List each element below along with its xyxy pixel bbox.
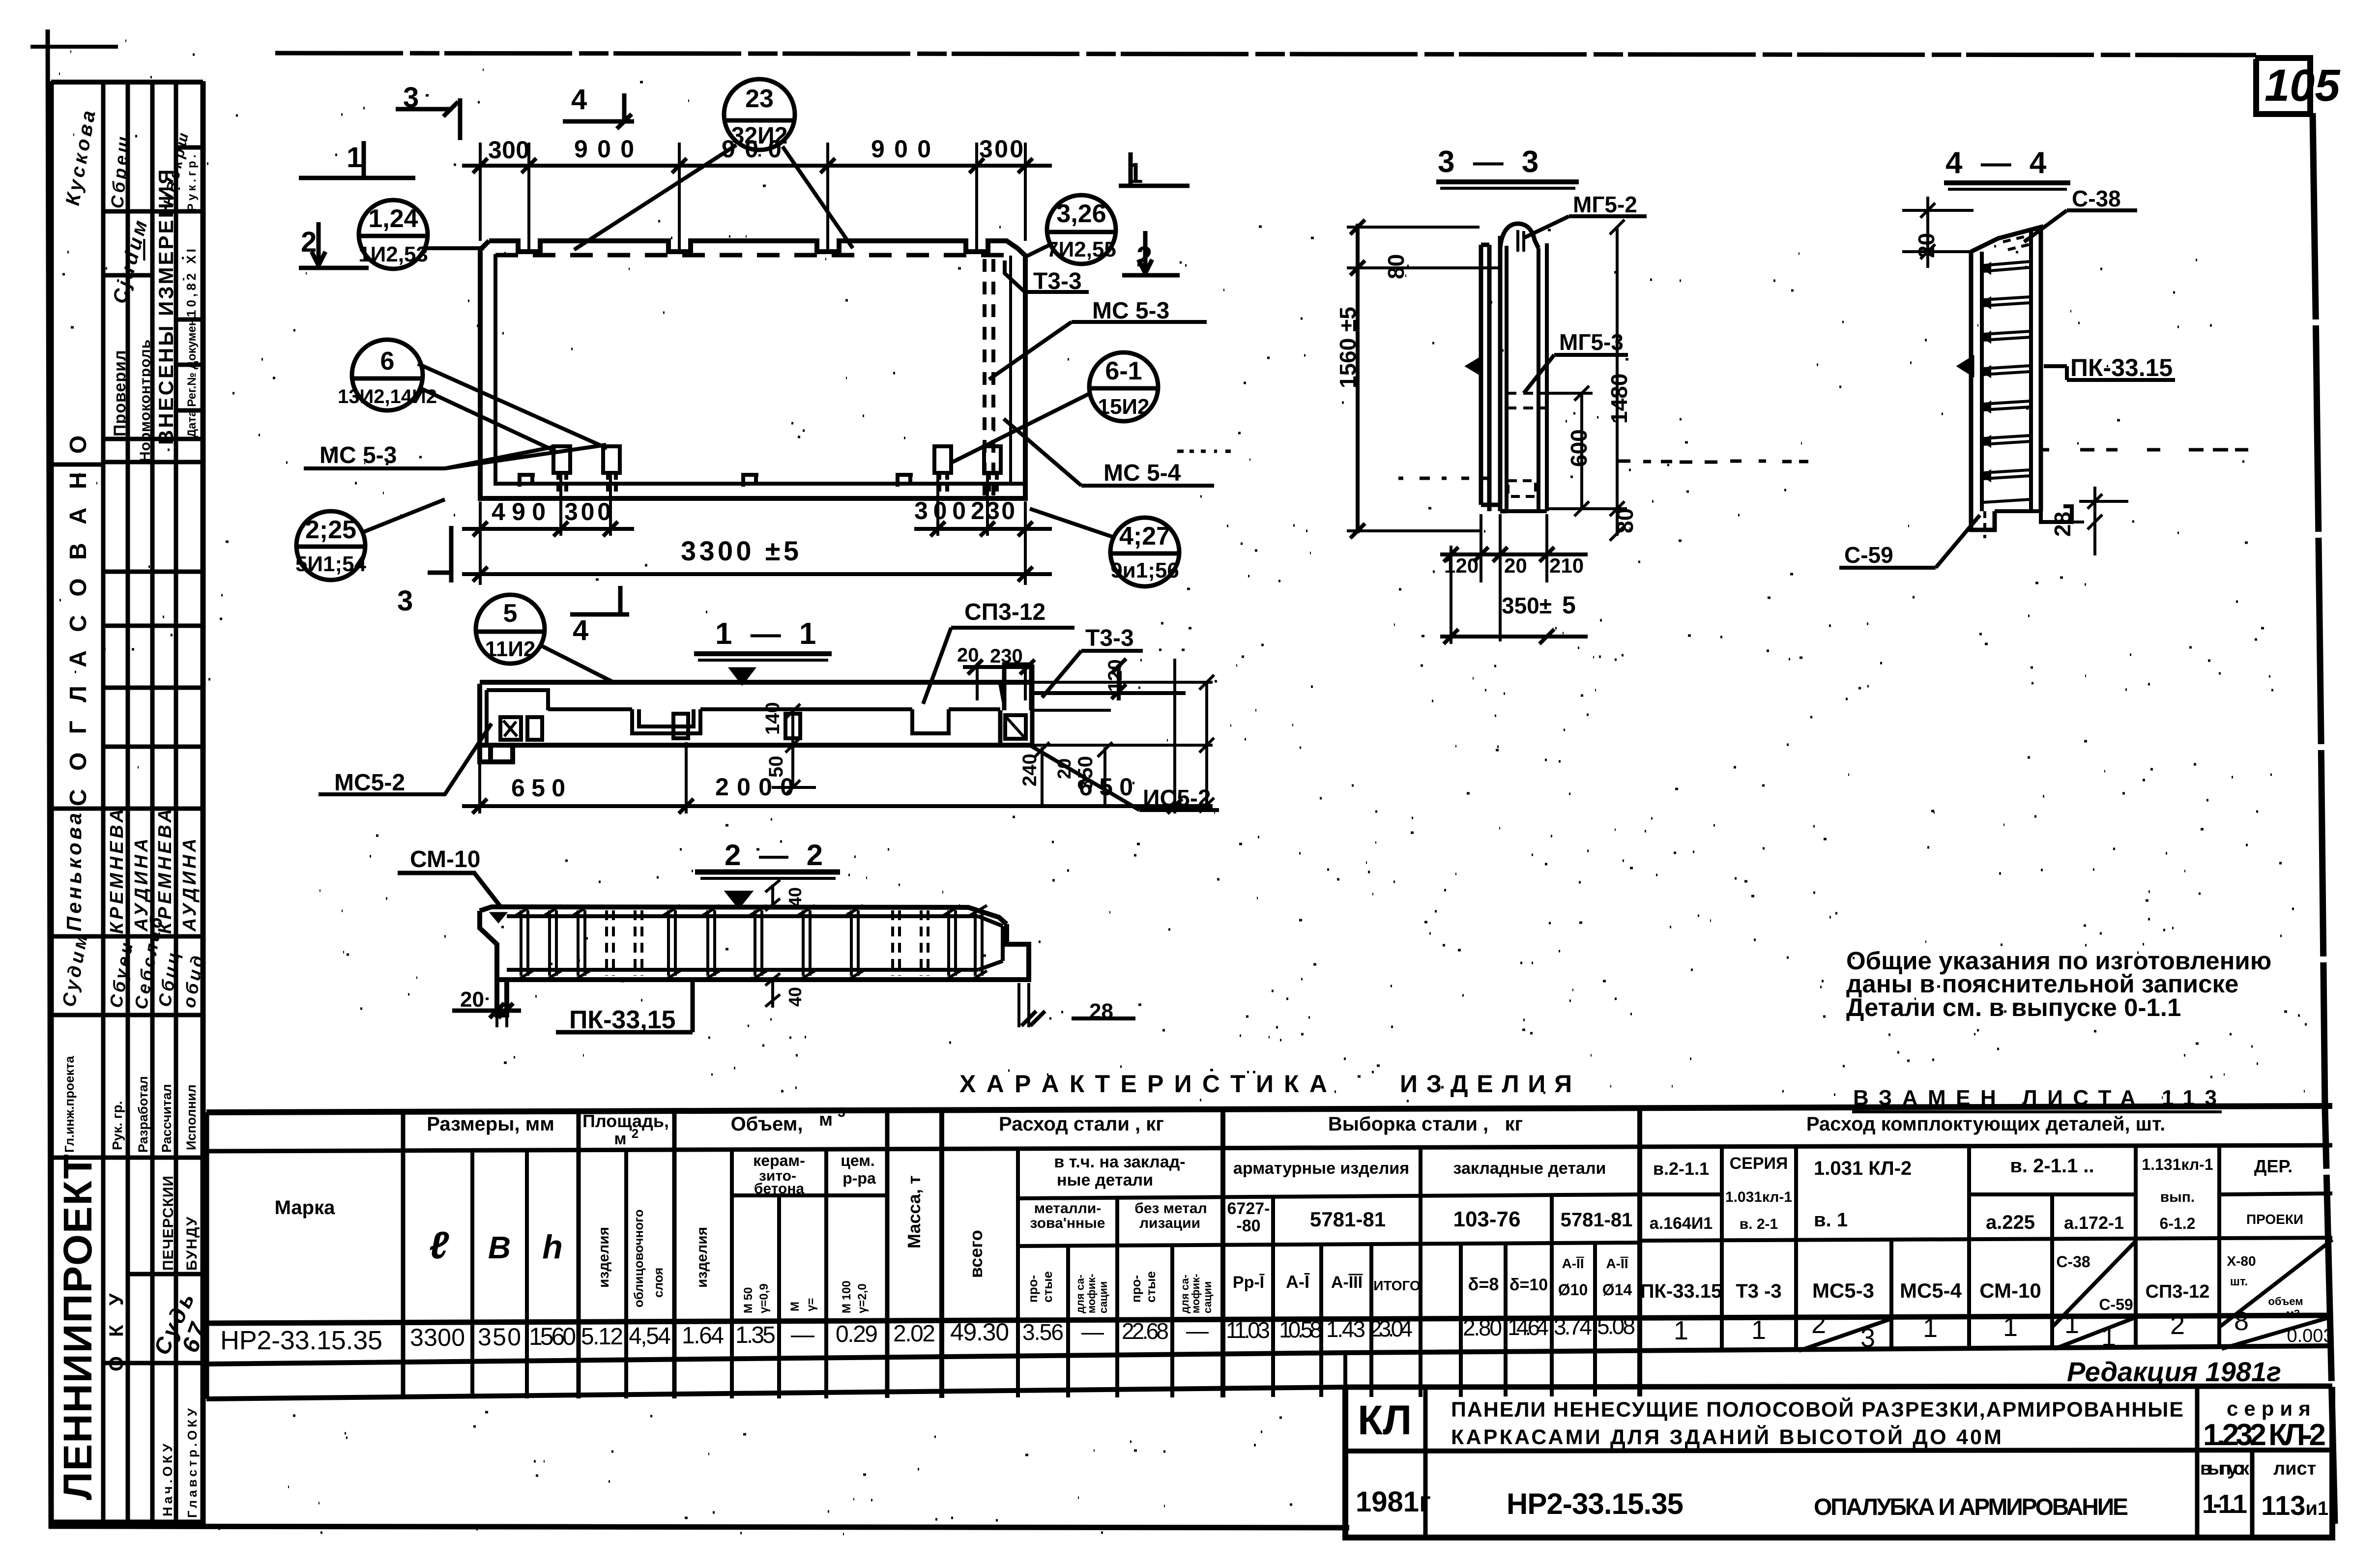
svg-text:5.12: 5.12 — [581, 1324, 623, 1350]
svg-text:—: — — [1186, 1318, 1209, 1343]
svg-text:ИТОГО: ИТОГО — [1373, 1278, 1421, 1293]
svg-text:ные детали: ные детали — [1057, 1171, 1153, 1190]
svg-text:4: 4 — [571, 84, 587, 116]
svg-text:про-: про- — [1025, 1275, 1040, 1303]
svg-text:для са-: для са- — [1074, 1275, 1086, 1313]
svg-text:м: м — [614, 1130, 626, 1148]
svg-text:изделия: изделия — [596, 1227, 612, 1288]
svg-text:2.80: 2.80 — [1463, 1315, 1502, 1340]
svg-text:40: 40 — [785, 987, 805, 1007]
svg-text:10.58: 10.58 — [1279, 1317, 1322, 1342]
svg-text:δ=8: δ=8 — [1468, 1274, 1499, 1294]
svg-text:3,26: 3,26 — [1056, 200, 1106, 228]
svg-text:Гл.инж.проекта: Гл.инж.проекта — [62, 1056, 77, 1153]
svg-text:5.08: 5.08 — [1597, 1313, 1635, 1339]
svg-text:Разработал: Разработал — [136, 1076, 150, 1153]
svg-text:Исполнил: Исполнил — [184, 1084, 199, 1150]
svg-text:6-1: 6-1 — [1105, 357, 1142, 385]
svg-text:ОПАЛУБКА И АРМИРОВАНИЕ: ОПАЛУБКА И АРМИРОВАНИЕ — [1814, 1494, 2128, 1520]
svg-text:350: 350 — [478, 1323, 521, 1351]
svg-text:40: 40 — [785, 887, 805, 907]
svg-text:210: 210 — [1549, 554, 1584, 577]
svg-text:13И2,14И2: 13И2,14И2 — [338, 386, 437, 407]
svg-text:стые: стые — [1040, 1271, 1055, 1303]
svg-text:10,82 XI: 10,82 XI — [184, 246, 199, 317]
svg-text:м3: м3 — [2286, 1307, 2300, 1320]
svg-text:м: м — [819, 1109, 833, 1130]
svg-text:А-ĪĪ: А-ĪĪ — [1562, 1256, 1584, 1271]
svg-text:МГ5-3: МГ5-3 — [1559, 329, 1624, 355]
svg-text:2: 2 — [1811, 1309, 1826, 1339]
svg-text:80: 80 — [1612, 508, 1638, 533]
svg-text:Ø10: Ø10 — [1558, 1281, 1588, 1299]
svg-text:изделия: изделия — [694, 1227, 710, 1288]
svg-text:в т.ч. на заклад-: в т.ч. на заклад- — [1054, 1153, 1185, 1171]
svg-text:2.02: 2.02 — [893, 1321, 935, 1347]
svg-text:А-ĪĪ: А-ĪĪ — [1606, 1256, 1628, 1271]
svg-text:С-59: С-59 — [2099, 1296, 2133, 1313]
svg-text:49.30: 49.30 — [950, 1318, 1009, 1346]
svg-text:в. 2-1.1 ..: в. 2-1.1 .. — [2010, 1155, 2094, 1177]
svg-text:М 50: М 50 — [742, 1287, 755, 1313]
svg-text:всего: всего — [966, 1230, 986, 1278]
svg-text:НР2-33.15.35: НР2-33.15.35 — [1507, 1487, 1683, 1520]
svg-text:ПК-33,15: ПК-33,15 — [569, 1006, 676, 1034]
svg-text:р-ра: р-ра — [842, 1169, 876, 1187]
svg-text:МС5-4: МС5-4 — [1900, 1279, 1962, 1302]
svg-text:Т3 -3: Т3 -3 — [1736, 1280, 1781, 1302]
svg-text:Т3-3: Т3-3 — [1085, 625, 1134, 651]
svg-text:3300: 3300 — [410, 1324, 465, 1351]
svg-text:ПРОЕКИ: ПРОЕКИ — [2246, 1212, 2303, 1227]
svg-text:сации: сации — [1097, 1281, 1109, 1313]
svg-text:керам-: керам- — [753, 1152, 805, 1169]
svg-text:5781-81: 5781-81 — [1561, 1209, 1633, 1231]
svg-text:ЛЕННИИПРОЕКТ: ЛЕННИИПРОЕКТ — [56, 1153, 100, 1500]
svg-text:300: 300 — [488, 136, 529, 164]
svg-text:50: 50 — [765, 756, 787, 778]
svg-text:КРЕМНЕВА: КРЕМНЕВА — [107, 806, 127, 934]
svg-text:Детали см. в выпуске 0-1.1: Детали см. в выпуске 0-1.1 — [1846, 993, 2181, 1021]
svg-text:900: 900 — [574, 135, 634, 163]
svg-text:Размеры, мм: Размеры, мм — [427, 1113, 554, 1135]
svg-text:Дата Рег.№ Докумен.: Дата Рег.№ Докумен. — [185, 316, 199, 437]
svg-text:28: 28 — [2050, 512, 2075, 537]
svg-text:ПК-33.15: ПК-33.15 — [2070, 354, 2173, 381]
svg-text:300: 300 — [564, 498, 611, 525]
svg-text:1.43: 1.43 — [1326, 1316, 1365, 1342]
svg-text:МГ5-2: МГ5-2 — [1573, 192, 1637, 217]
svg-text:сации: сации — [1201, 1281, 1214, 1313]
svg-text:11И2: 11И2 — [485, 637, 536, 661]
svg-text:ℓ: ℓ — [429, 1223, 449, 1267]
svg-text:1: 1 — [1751, 1315, 1766, 1345]
svg-text:а.225: а.225 — [1986, 1212, 2035, 1233]
svg-text:О К У: О К У — [106, 1286, 127, 1371]
svg-text:Нормоконтроль: Нормоконтроль — [137, 339, 153, 462]
svg-text:1: 1 — [2003, 1312, 2018, 1342]
svg-text:9и1;56: 9и1;56 — [1110, 558, 1179, 582]
svg-text:1,24: 1,24 — [368, 204, 418, 233]
svg-text:3: 3 — [838, 1104, 845, 1120]
svg-text:ПАНЕЛИ НЕНЕСУЩИЕ ПОЛОСОВОЙ: ПАНЕЛИ НЕНЕСУЩИЕ ПОЛОСОВОЙ РАЗРЕЗКИ,АРМИ… — [1451, 1397, 2183, 1422]
svg-text:0.29: 0.29 — [836, 1321, 878, 1347]
svg-text:А-ĪĪĪ: А-ĪĪĪ — [1331, 1273, 1363, 1292]
svg-text:140: 140 — [762, 702, 784, 735]
svg-text:в. 1: в. 1 — [1814, 1209, 1848, 1231]
svg-text:без метал: без метал — [1134, 1200, 1207, 1217]
svg-text:6: 6 — [380, 347, 395, 376]
svg-text:БУНДУ: БУНДУ — [184, 1216, 200, 1271]
svg-text:Расход стали , кг: Расход стали , кг — [999, 1113, 1164, 1135]
svg-text:1.131кл-1: 1.131кл-1 — [2142, 1156, 2213, 1173]
svg-text:Объем,: Объем, — [731, 1113, 803, 1135]
svg-text:бетона: бетона — [754, 1181, 805, 1197]
svg-text:32И2: 32И2 — [731, 123, 788, 149]
svg-text:1-1.1: 1-1.1 — [2202, 1489, 2247, 1519]
svg-text:2 — 2: 2 — 2 — [725, 839, 828, 871]
svg-text:НР2-33.15.35: НР2-33.15.35 — [220, 1326, 382, 1355]
svg-text:1: 1 — [1923, 1313, 1938, 1343]
svg-text:в.2-1.1: в.2-1.1 — [1653, 1159, 1709, 1179]
svg-text:1.031 КЛ-2: 1.031 КЛ-2 — [1814, 1158, 1912, 1179]
svg-text:в. 2-1: в. 2-1 — [1740, 1216, 1778, 1232]
svg-text:1: 1 — [347, 142, 362, 174]
svg-text:7И2,55: 7И2,55 — [1046, 237, 1116, 261]
svg-text:арматурные изделия: арматурные изделия — [1233, 1159, 1409, 1178]
svg-text:—: — — [131, 236, 155, 261]
svg-text:СП3-12: СП3-12 — [2146, 1281, 2210, 1302]
svg-text:1.031кл-1: 1.031кл-1 — [1725, 1189, 1792, 1205]
svg-text:В: В — [488, 1230, 511, 1265]
svg-text:С-59: С-59 — [1844, 542, 1893, 568]
svg-text:ДЕР.: ДЕР. — [2254, 1156, 2293, 1176]
svg-text:Ø14: Ø14 — [1602, 1281, 1632, 1299]
svg-text:шт.: шт. — [2230, 1275, 2248, 1288]
svg-text:—: — — [791, 1322, 814, 1348]
svg-text:2: 2 — [2170, 1310, 2185, 1340]
svg-text:слоя: слоя — [651, 1268, 666, 1298]
svg-text:650: 650 — [511, 774, 565, 802]
svg-text:28: 28 — [1089, 999, 1113, 1023]
svg-text:про-: про- — [1129, 1275, 1143, 1303]
svg-text:Расход комплоктующих деталей,: Расход комплоктующих деталей, шт. — [1806, 1113, 2165, 1135]
svg-text:240: 240 — [1019, 754, 1041, 786]
svg-text:Рук.гр.: Рук.гр. — [185, 152, 199, 211]
svg-text:80: 80 — [1383, 254, 1409, 279]
svg-text:3: 3 — [397, 585, 413, 617]
svg-text:стые: стые — [1143, 1271, 1158, 1303]
svg-text:а.164И1: а.164И1 — [1650, 1214, 1712, 1233]
svg-text:23: 23 — [745, 85, 774, 113]
svg-text:4 — 4: 4 — 4 — [1945, 146, 2051, 180]
svg-text:1.232 КЛ-2: 1.232 КЛ-2 — [2203, 1418, 2326, 1452]
svg-text:МС5-3: МС5-3 — [1812, 1279, 1874, 1302]
svg-text:М: М — [788, 1302, 802, 1311]
svg-text:Площадь,: Площадь, — [582, 1111, 669, 1131]
svg-text:СМ-10: СМ-10 — [1979, 1279, 2041, 1302]
svg-text:СП3-12: СП3-12 — [964, 599, 1045, 625]
svg-text:1 — 1: 1 — 1 — [715, 617, 821, 651]
svg-text:3.56: 3.56 — [1022, 1319, 1064, 1345]
svg-text:120: 120 — [1444, 554, 1479, 577]
svg-text:металли-: металли- — [1034, 1200, 1101, 1217]
svg-text:а.172-1: а.172-1 — [2064, 1213, 2124, 1233]
svg-text:С-38: С-38 — [2056, 1253, 2090, 1271]
svg-text:лизации: лизации — [1139, 1215, 1200, 1231]
svg-text:1560: 1560 — [529, 1323, 576, 1350]
svg-text:23.04: 23.04 — [1369, 1316, 1413, 1341]
svg-text:h: h — [542, 1228, 563, 1266]
svg-text:МС 5-3: МС 5-3 — [319, 442, 397, 468]
svg-text:Выборка стали , кг: Выборка стали , кг — [1328, 1113, 1523, 1135]
svg-text:мофик-: мофик- — [1085, 1274, 1098, 1313]
svg-text:5И1;54: 5И1;54 — [295, 552, 367, 576]
svg-text:105: 105 — [2264, 60, 2341, 111]
svg-text:1981г: 1981г — [1356, 1486, 1431, 1518]
svg-text:γ=0,9: γ=0,9 — [757, 1283, 771, 1313]
svg-text:1.35: 1.35 — [735, 1322, 776, 1348]
svg-text:серия: серия — [2227, 1397, 2317, 1420]
svg-text:МС5-2: МС5-2 — [334, 770, 405, 796]
svg-text:20: 20 — [460, 987, 484, 1012]
svg-text:300: 300 — [914, 497, 966, 524]
svg-text:вып.: вып. — [2160, 1189, 2195, 1205]
svg-text:1480: 1480 — [1606, 374, 1632, 424]
svg-text:Х-80: Х-80 — [2227, 1253, 2256, 1269]
svg-text:2;25: 2;25 — [305, 516, 356, 544]
svg-text:11.03: 11.03 — [1226, 1317, 1270, 1343]
svg-text:γ=: γ= — [805, 1298, 818, 1311]
svg-text:-80: -80 — [1236, 1217, 1260, 1235]
svg-text:мофик-: мофик- — [1190, 1274, 1202, 1313]
svg-text:СЕРИЯ: СЕРИЯ — [1730, 1154, 1788, 1173]
svg-text:3 — 3: 3 — 3 — [1438, 145, 1543, 179]
svg-text:350±: 350± — [1502, 593, 1552, 618]
svg-text:230: 230 — [990, 645, 1023, 667]
svg-text:8: 8 — [2234, 1307, 2249, 1336]
svg-text:103-76: 103-76 — [1453, 1207, 1520, 1231]
svg-text:1560 ±5: 1560 ±5 — [1335, 307, 1361, 388]
svg-text:ПК-33.15: ПК-33.15 — [1640, 1280, 1722, 1302]
svg-text:Марка: Марка — [275, 1197, 336, 1219]
svg-text:Главстр.ОКУ: Главстр.ОКУ — [185, 1405, 200, 1518]
svg-text:—: — — [1081, 1319, 1104, 1344]
svg-text:А-Ī: А-Ī — [1286, 1272, 1310, 1292]
svg-text:СМ-10: СМ-10 — [410, 846, 480, 872]
svg-text:Х А Р А К Т Е Р И С Т И К А: Х А Р А К Т Е Р И С Т И К А — [959, 1070, 1327, 1098]
svg-text:14.64: 14.64 — [1508, 1314, 1549, 1340]
svg-text:4: 4 — [573, 614, 588, 646]
svg-text:Редакция 1981г: Редакция 1981г — [2067, 1356, 2281, 1387]
svg-text:облицовочного: облицовочного — [631, 1209, 646, 1307]
svg-text:Рассчитал: Рассчитал — [159, 1084, 174, 1153]
svg-text:Проверил: Проверил — [111, 349, 129, 436]
svg-text:1.64: 1.64 — [682, 1323, 724, 1349]
svg-text:1: 1 — [2064, 1309, 2079, 1339]
svg-text:закладные детали: закладные детали — [1453, 1159, 1606, 1178]
svg-text:490: 490 — [492, 498, 546, 525]
svg-text:ИС5-2: ИС5-2 — [1143, 785, 1211, 812]
svg-text:230: 230 — [971, 497, 1015, 524]
svg-text:М 100: М 100 — [840, 1280, 853, 1313]
svg-text:120: 120 — [1104, 659, 1126, 692]
svg-text:20: 20 — [1504, 554, 1527, 577]
svg-text:5: 5 — [503, 599, 518, 628]
svg-text:20: 20 — [957, 644, 979, 666]
svg-text:АУДИНА: АУДИНА — [179, 836, 200, 932]
svg-text:22.68: 22.68 — [1122, 1318, 1169, 1344]
svg-text:С-38: С-38 — [2072, 186, 2121, 211]
svg-text:6-1.2: 6-1.2 — [2160, 1215, 2196, 1232]
svg-text:4;27: 4;27 — [1119, 522, 1170, 551]
svg-text:Нач.ОКУ: Нач.ОКУ — [160, 1441, 175, 1516]
svg-text:3.74: 3.74 — [1554, 1314, 1592, 1339]
svg-text:5781-81: 5781-81 — [1310, 1208, 1386, 1231]
svg-text:Масса, т: Масса, т — [904, 1175, 924, 1249]
svg-text:1И2,53: 1И2,53 — [358, 242, 428, 266]
svg-text:15И2: 15И2 — [1098, 395, 1149, 419]
svg-text:δ=10: δ=10 — [1509, 1276, 1548, 1294]
svg-text:ПЕЧЕРСКИИ: ПЕЧЕРСКИИ — [160, 1175, 176, 1271]
svg-text:С О Г Л А С О В А Н О: С О Г Л А С О В А Н О — [65, 430, 91, 806]
svg-text:объем: объем — [2268, 1295, 2303, 1307]
svg-text:зова'нные: зова'нные — [1030, 1215, 1105, 1231]
svg-text:1: 1 — [1674, 1316, 1688, 1345]
svg-text:2: 2 — [632, 1126, 639, 1141]
svg-text:Рр-Ī: Рр-Ī — [1233, 1273, 1265, 1292]
svg-text:Пенькова: Пенькова — [62, 810, 86, 931]
svg-text:цем.: цем. — [841, 1152, 875, 1169]
svg-text:γ=2,0: γ=2,0 — [856, 1283, 869, 1313]
svg-text:КЛ: КЛ — [1358, 1397, 1412, 1443]
svg-text:МС 5-4: МС 5-4 — [1103, 460, 1181, 486]
svg-text:выпуск: выпуск — [2200, 1458, 2250, 1479]
svg-text:4,54: 4,54 — [629, 1323, 671, 1349]
svg-text:600: 600 — [1566, 429, 1592, 467]
svg-text:ВНЕСЕНЫ ИЗМЕРЕНИЯ: ВНЕСЕНЫ ИЗМЕРЕНИЯ — [154, 168, 177, 445]
svg-text:900: 900 — [871, 135, 931, 163]
svg-text:5: 5 — [1562, 591, 1576, 619]
svg-text:6727-: 6727- — [1227, 1199, 1270, 1218]
svg-text:Рук. гр.: Рук. гр. — [110, 1101, 125, 1150]
svg-text:лист: лист — [2273, 1458, 2316, 1479]
svg-text:300: 300 — [979, 135, 1023, 163]
svg-text:КАРКАСАМИ ДЛЯ ЗДАНИЙ В: КАРКАСАМИ ДЛЯ ЗДАНИЙ ВЫСОТОЙ ДО 40М — [1451, 1425, 2002, 1449]
